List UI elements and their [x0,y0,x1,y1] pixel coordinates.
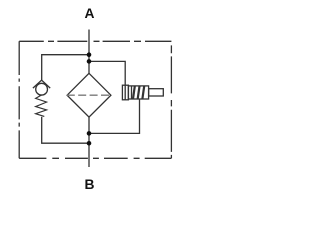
svg-text:B: B [85,177,95,192]
svg-text:A: A [85,6,95,21]
